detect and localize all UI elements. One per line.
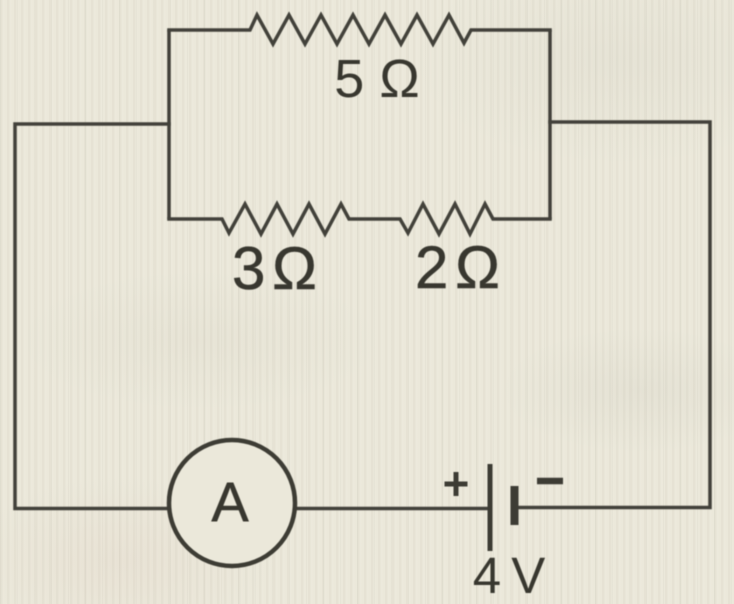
svg-text:5 Ω: 5 Ω [334,49,419,109]
svg-text:3 Ω: 3 Ω [232,235,315,302]
svg-text:4 V: 4 V [473,547,546,604]
svg-text:A: A [211,470,249,533]
svg-text:2 Ω: 2 Ω [415,234,498,301]
